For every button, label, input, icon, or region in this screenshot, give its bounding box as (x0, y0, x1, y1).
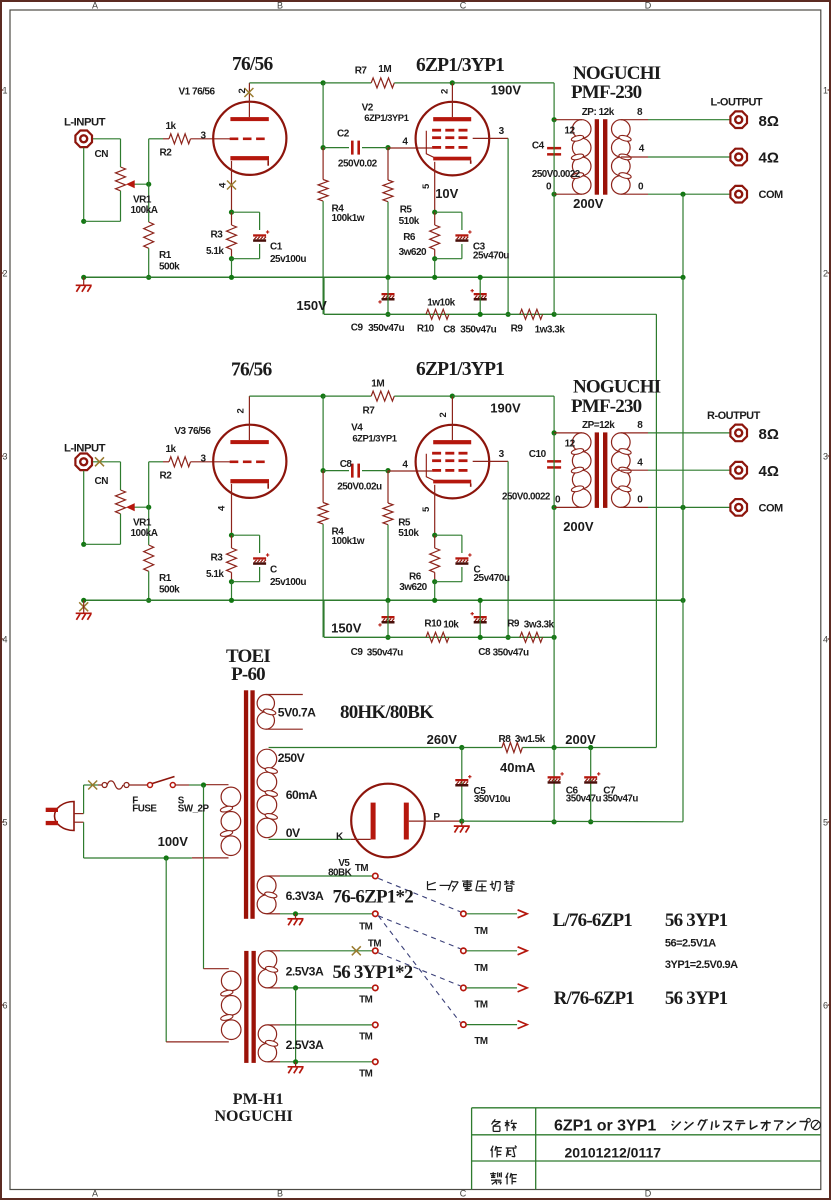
svg-text:TM: TM (474, 926, 487, 937)
svg-text:R/76-6ZP1: R/76-6ZP1 (554, 988, 635, 1009)
svg-text:D: D (645, 1189, 652, 1199)
svg-text:C: C (460, 1189, 467, 1199)
svg-text:SW_2P: SW_2P (178, 803, 210, 814)
svg-text:56 3YP1: 56 3YP1 (665, 988, 728, 1009)
svg-text:80HK/80BK: 80HK/80BK (340, 702, 434, 723)
svg-text:C4: C4 (532, 141, 545, 152)
svg-text:TM: TM (474, 963, 487, 974)
svg-text:CN: CN (95, 149, 109, 160)
svg-text:C: C (460, 1, 467, 11)
svg-text:TM: TM (359, 995, 372, 1006)
svg-text:V3 76/56: V3 76/56 (174, 426, 211, 437)
svg-text:L-INPUT: L-INPUT (64, 443, 106, 455)
svg-text:200V: 200V (563, 519, 594, 534)
svg-text:350v47u: 350v47u (566, 794, 602, 805)
svg-text:5: 5 (823, 818, 828, 828)
svg-text:6ZP1/3YP1: 6ZP1/3YP1 (364, 113, 409, 124)
svg-text:56 3YP1: 56 3YP1 (665, 910, 728, 931)
svg-text:2: 2 (237, 89, 248, 94)
svg-text:190V: 190V (490, 401, 521, 416)
svg-text:R9: R9 (511, 324, 524, 335)
svg-text:R6: R6 (409, 572, 422, 583)
svg-text:4Ω: 4Ω (759, 463, 779, 480)
svg-text:5.1k: 5.1k (206, 246, 224, 257)
svg-text:76/56: 76/56 (232, 54, 273, 75)
svg-text:TM: TM (368, 939, 381, 950)
svg-text:510k: 510k (398, 528, 419, 539)
svg-text:1k: 1k (166, 121, 177, 132)
svg-text:D: D (645, 1, 652, 11)
svg-text:6: 6 (823, 1001, 828, 1011)
svg-text:TM: TM (359, 922, 372, 933)
svg-text:350v47u: 350v47u (493, 648, 529, 659)
svg-text:R5: R5 (398, 518, 411, 529)
svg-text:0V: 0V (286, 826, 301, 840)
svg-text:200V: 200V (565, 732, 596, 747)
svg-text:8Ω: 8Ω (759, 426, 779, 443)
svg-text:100k1w: 100k1w (332, 213, 365, 224)
svg-text:250V: 250V (278, 751, 306, 765)
svg-text:C10: C10 (529, 449, 547, 460)
svg-text:VR1: VR1 (133, 195, 152, 206)
svg-text:TM: TM (355, 863, 368, 874)
svg-text:5V0.7A: 5V0.7A (278, 706, 316, 720)
svg-text:100kA: 100kA (131, 205, 158, 216)
svg-text:V2: V2 (362, 103, 374, 114)
svg-text:C1: C1 (270, 242, 283, 253)
svg-text:6ZP1/3YP1: 6ZP1/3YP1 (352, 434, 397, 445)
svg-text:R10: R10 (417, 324, 435, 335)
svg-text:150V: 150V (331, 621, 362, 636)
svg-text:TM: TM (474, 1036, 487, 1047)
svg-text:250V0.02u: 250V0.02u (337, 482, 382, 493)
svg-text:250V0.0022: 250V0.0022 (532, 169, 581, 180)
svg-text:R6: R6 (403, 232, 416, 243)
svg-text:56 3YP1*2: 56 3YP1*2 (333, 962, 413, 983)
svg-text:25v100u: 25v100u (270, 577, 306, 588)
svg-text:B: B (277, 1, 283, 11)
svg-text:200V: 200V (573, 196, 604, 211)
svg-text:60mA: 60mA (286, 788, 318, 802)
svg-text:6ZP1/3YP1: 6ZP1/3YP1 (416, 359, 504, 380)
svg-text:R7: R7 (355, 66, 368, 77)
svg-text:350v47u: 350v47u (368, 323, 404, 334)
svg-text:L-INPUT: L-INPUT (64, 117, 106, 129)
svg-text:C2: C2 (337, 129, 350, 140)
svg-text:B: B (277, 1189, 283, 1199)
svg-text:L/76-6ZP1: L/76-6ZP1 (553, 910, 633, 931)
svg-text:PMF-230: PMF-230 (571, 82, 642, 103)
svg-text:76/56: 76/56 (231, 360, 272, 381)
svg-text:R3: R3 (211, 553, 224, 564)
svg-text:TM: TM (359, 1032, 372, 1043)
svg-text:2.5V3A: 2.5V3A (286, 965, 324, 979)
svg-text:100k1w: 100k1w (332, 536, 365, 547)
svg-text:ZP=12k: ZP=12k (582, 420, 615, 431)
svg-text:2.5V3A: 2.5V3A (286, 1038, 324, 1052)
svg-text:6.3V3A: 6.3V3A (286, 889, 324, 903)
svg-text:R1: R1 (159, 573, 172, 584)
svg-text:CN: CN (95, 476, 109, 487)
svg-text:COM: COM (759, 503, 784, 515)
svg-text:C8: C8 (478, 647, 491, 658)
svg-text:P-60: P-60 (231, 664, 265, 685)
svg-text:100kA: 100kA (131, 528, 158, 539)
svg-text:12: 12 (565, 439, 576, 450)
svg-text:1M: 1M (371, 379, 384, 390)
svg-text:76-6ZP1*2: 76-6ZP1*2 (333, 887, 414, 908)
svg-text:510k: 510k (399, 216, 420, 227)
svg-text:NOGUCHI: NOGUCHI (573, 63, 661, 84)
svg-text:500k: 500k (159, 585, 180, 596)
svg-text:5.1k: 5.1k (206, 569, 224, 580)
svg-text:25v100u: 25v100u (270, 254, 306, 265)
svg-text:350V10u: 350V10u (474, 794, 511, 805)
svg-text:P: P (433, 812, 440, 823)
svg-text:3w1.5k: 3w1.5k (515, 734, 546, 745)
svg-text:190V: 190V (491, 83, 522, 98)
svg-text:3: 3 (823, 452, 828, 462)
svg-text:C9: C9 (351, 323, 364, 334)
svg-text:2: 2 (236, 409, 247, 414)
svg-text:R-OUTPUT: R-OUTPUT (707, 410, 761, 422)
svg-text:4: 4 (823, 635, 828, 645)
svg-text:3w620: 3w620 (399, 247, 427, 258)
svg-text:R2: R2 (160, 471, 173, 482)
svg-text:ZP: 12k: ZP: 12k (582, 107, 615, 118)
svg-text:260V: 260V (427, 732, 458, 747)
svg-text:1w3.3k: 1w3.3k (535, 325, 566, 336)
svg-text:TM: TM (359, 1069, 372, 1080)
svg-text:L-OUTPUT: L-OUTPUT (711, 97, 763, 109)
svg-text:R5: R5 (400, 205, 413, 216)
svg-text:1w10k: 1w10k (427, 298, 455, 309)
svg-text:R1: R1 (159, 250, 172, 261)
svg-text:10V: 10V (435, 186, 458, 201)
svg-text:R8: R8 (499, 734, 512, 745)
svg-text:C8: C8 (340, 459, 353, 470)
svg-text:8Ω: 8Ω (759, 113, 779, 130)
svg-text:R2: R2 (160, 148, 173, 159)
svg-text:A: A (92, 1, 98, 11)
svg-text:6ZP1/3YP1: 6ZP1/3YP1 (416, 55, 504, 76)
svg-text:TM: TM (474, 1000, 487, 1011)
svg-text:100V: 100V (158, 834, 189, 849)
svg-text:C8: C8 (443, 325, 456, 336)
svg-text:2: 2 (438, 413, 449, 418)
svg-text:500k: 500k (159, 262, 180, 273)
svg-text:150V: 150V (296, 298, 327, 313)
svg-text:250V0.0022: 250V0.0022 (502, 492, 551, 503)
svg-text:20101212/0117: 20101212/0117 (565, 1145, 662, 1161)
svg-text:12: 12 (564, 126, 575, 137)
svg-text:3w620: 3w620 (399, 582, 427, 593)
svg-text:PMF-230: PMF-230 (571, 396, 642, 417)
svg-text:C: C (270, 565, 277, 576)
svg-text:56=2.5V1A: 56=2.5V1A (665, 938, 716, 950)
svg-text:R9: R9 (507, 619, 520, 630)
svg-text:350v47u: 350v47u (367, 648, 403, 659)
svg-text:V1 76/56: V1 76/56 (179, 87, 216, 98)
svg-text:NOGUCHI: NOGUCHI (215, 1108, 293, 1125)
svg-text:FUSE: FUSE (132, 803, 157, 814)
svg-text:R10: R10 (424, 619, 442, 630)
svg-text:2: 2 (823, 269, 828, 279)
svg-text:250V0.02: 250V0.02 (338, 159, 378, 170)
svg-text:3w3.3k: 3w3.3k (524, 620, 555, 631)
svg-text:COM: COM (759, 189, 784, 201)
svg-text:1: 1 (823, 86, 828, 96)
svg-text:R7: R7 (363, 406, 376, 417)
svg-text:C9: C9 (351, 647, 364, 658)
svg-text:6ZP1 or 3YP1: 6ZP1 or 3YP1 (554, 1118, 656, 1135)
svg-text:V4: V4 (351, 423, 363, 434)
svg-text:40mA: 40mA (500, 760, 536, 775)
svg-text:25v470u: 25v470u (473, 251, 509, 262)
svg-text:2: 2 (439, 89, 450, 94)
svg-text:1k: 1k (166, 444, 177, 455)
svg-text:1M: 1M (378, 64, 391, 75)
svg-text:NOGUCHI: NOGUCHI (573, 377, 661, 398)
svg-text:80BK: 80BK (328, 868, 351, 879)
svg-text:350v47u: 350v47u (603, 794, 639, 805)
svg-text:4Ω: 4Ω (759, 150, 779, 167)
svg-text:350v47u: 350v47u (460, 325, 496, 336)
svg-text:10k: 10k (443, 620, 459, 631)
svg-text:A: A (92, 1189, 98, 1199)
svg-text:R3: R3 (211, 230, 224, 241)
svg-text:PM-H1: PM-H1 (233, 1091, 284, 1108)
svg-text:VR1: VR1 (133, 518, 152, 529)
svg-text:25v470u: 25v470u (474, 573, 510, 584)
svg-text:3YP1=2.5V0.9A: 3YP1=2.5V0.9A (665, 959, 738, 971)
